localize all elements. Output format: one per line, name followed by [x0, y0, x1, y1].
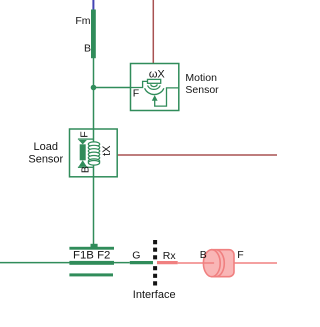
svg-text:Fm: Fm: [75, 15, 90, 27]
svg-text:B: B: [200, 249, 207, 261]
svg-text:F: F: [78, 131, 90, 137]
svg-text:B: B: [80, 166, 92, 173]
svg-text:Motion: Motion: [185, 72, 217, 84]
svg-text:Sensor: Sensor: [28, 154, 63, 166]
svg-text:Sensor: Sensor: [185, 84, 219, 96]
svg-text:G: G: [132, 250, 140, 262]
svg-text:F1B F2: F1B F2: [73, 250, 110, 262]
svg-text:F: F: [133, 88, 139, 100]
svg-text:Rx: Rx: [163, 250, 177, 262]
svg-text:Load: Load: [34, 141, 58, 153]
svg-text:F: F: [237, 249, 243, 261]
svg-text:ωX: ωX: [149, 68, 166, 80]
svg-text:tX: tX: [101, 145, 113, 156]
svg-text:B: B: [84, 42, 91, 54]
svg-text:Interface: Interface: [133, 289, 176, 301]
